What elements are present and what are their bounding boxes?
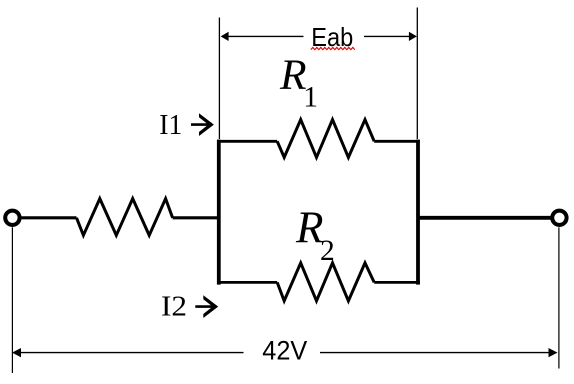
Eab dimension left line	[228, 35, 304, 37]
Eab dimension right line	[364, 35, 410, 37]
extension line below left terminal	[11, 227, 13, 373]
wire bottom branch right	[374, 281, 420, 284]
label R2	[295, 203, 335, 268]
42V dimension left arrowhead	[12, 348, 21, 357]
extension line above node b	[416, 8, 418, 140]
resistor R2	[277, 263, 374, 301]
left terminal	[5, 211, 19, 225]
node a bus (left vertical)	[217, 140, 221, 285]
extension line below right terminal	[558, 227, 560, 368]
svg-text:2: 2	[320, 235, 335, 267]
svg-text:42V: 42V	[262, 336, 307, 366]
right terminal	[552, 211, 566, 225]
42V dimension left line	[20, 352, 244, 354]
label R1	[279, 51, 318, 113]
wire top branch right	[374, 140, 420, 143]
spellcheck squiggle under Eab	[311, 47, 355, 49]
Eab dimension right arrowhead	[409, 32, 417, 41]
wire bottom branch left	[217, 281, 277, 284]
svg-text:1: 1	[303, 81, 318, 113]
node b bus (right vertical)	[416, 140, 420, 285]
resistor R1	[277, 120, 374, 158]
wire from left terminal to series resistor	[22, 216, 77, 219]
42V dimension right arrowhead	[549, 348, 558, 357]
42V dimension right line	[320, 352, 550, 354]
wire from node b to right terminal	[418, 216, 551, 220]
svg-text:I1: I1	[159, 110, 182, 141]
wire top branch left	[217, 140, 277, 143]
svg-text:I2: I2	[161, 292, 187, 323]
arrow I2	[195, 295, 218, 318]
extension line above node a	[218, 18, 220, 140]
arrow I1	[191, 113, 214, 136]
wire from series resistor to node a	[173, 216, 219, 219]
series resistor (left)	[77, 199, 173, 236]
Eab dimension left arrowhead	[221, 32, 229, 41]
